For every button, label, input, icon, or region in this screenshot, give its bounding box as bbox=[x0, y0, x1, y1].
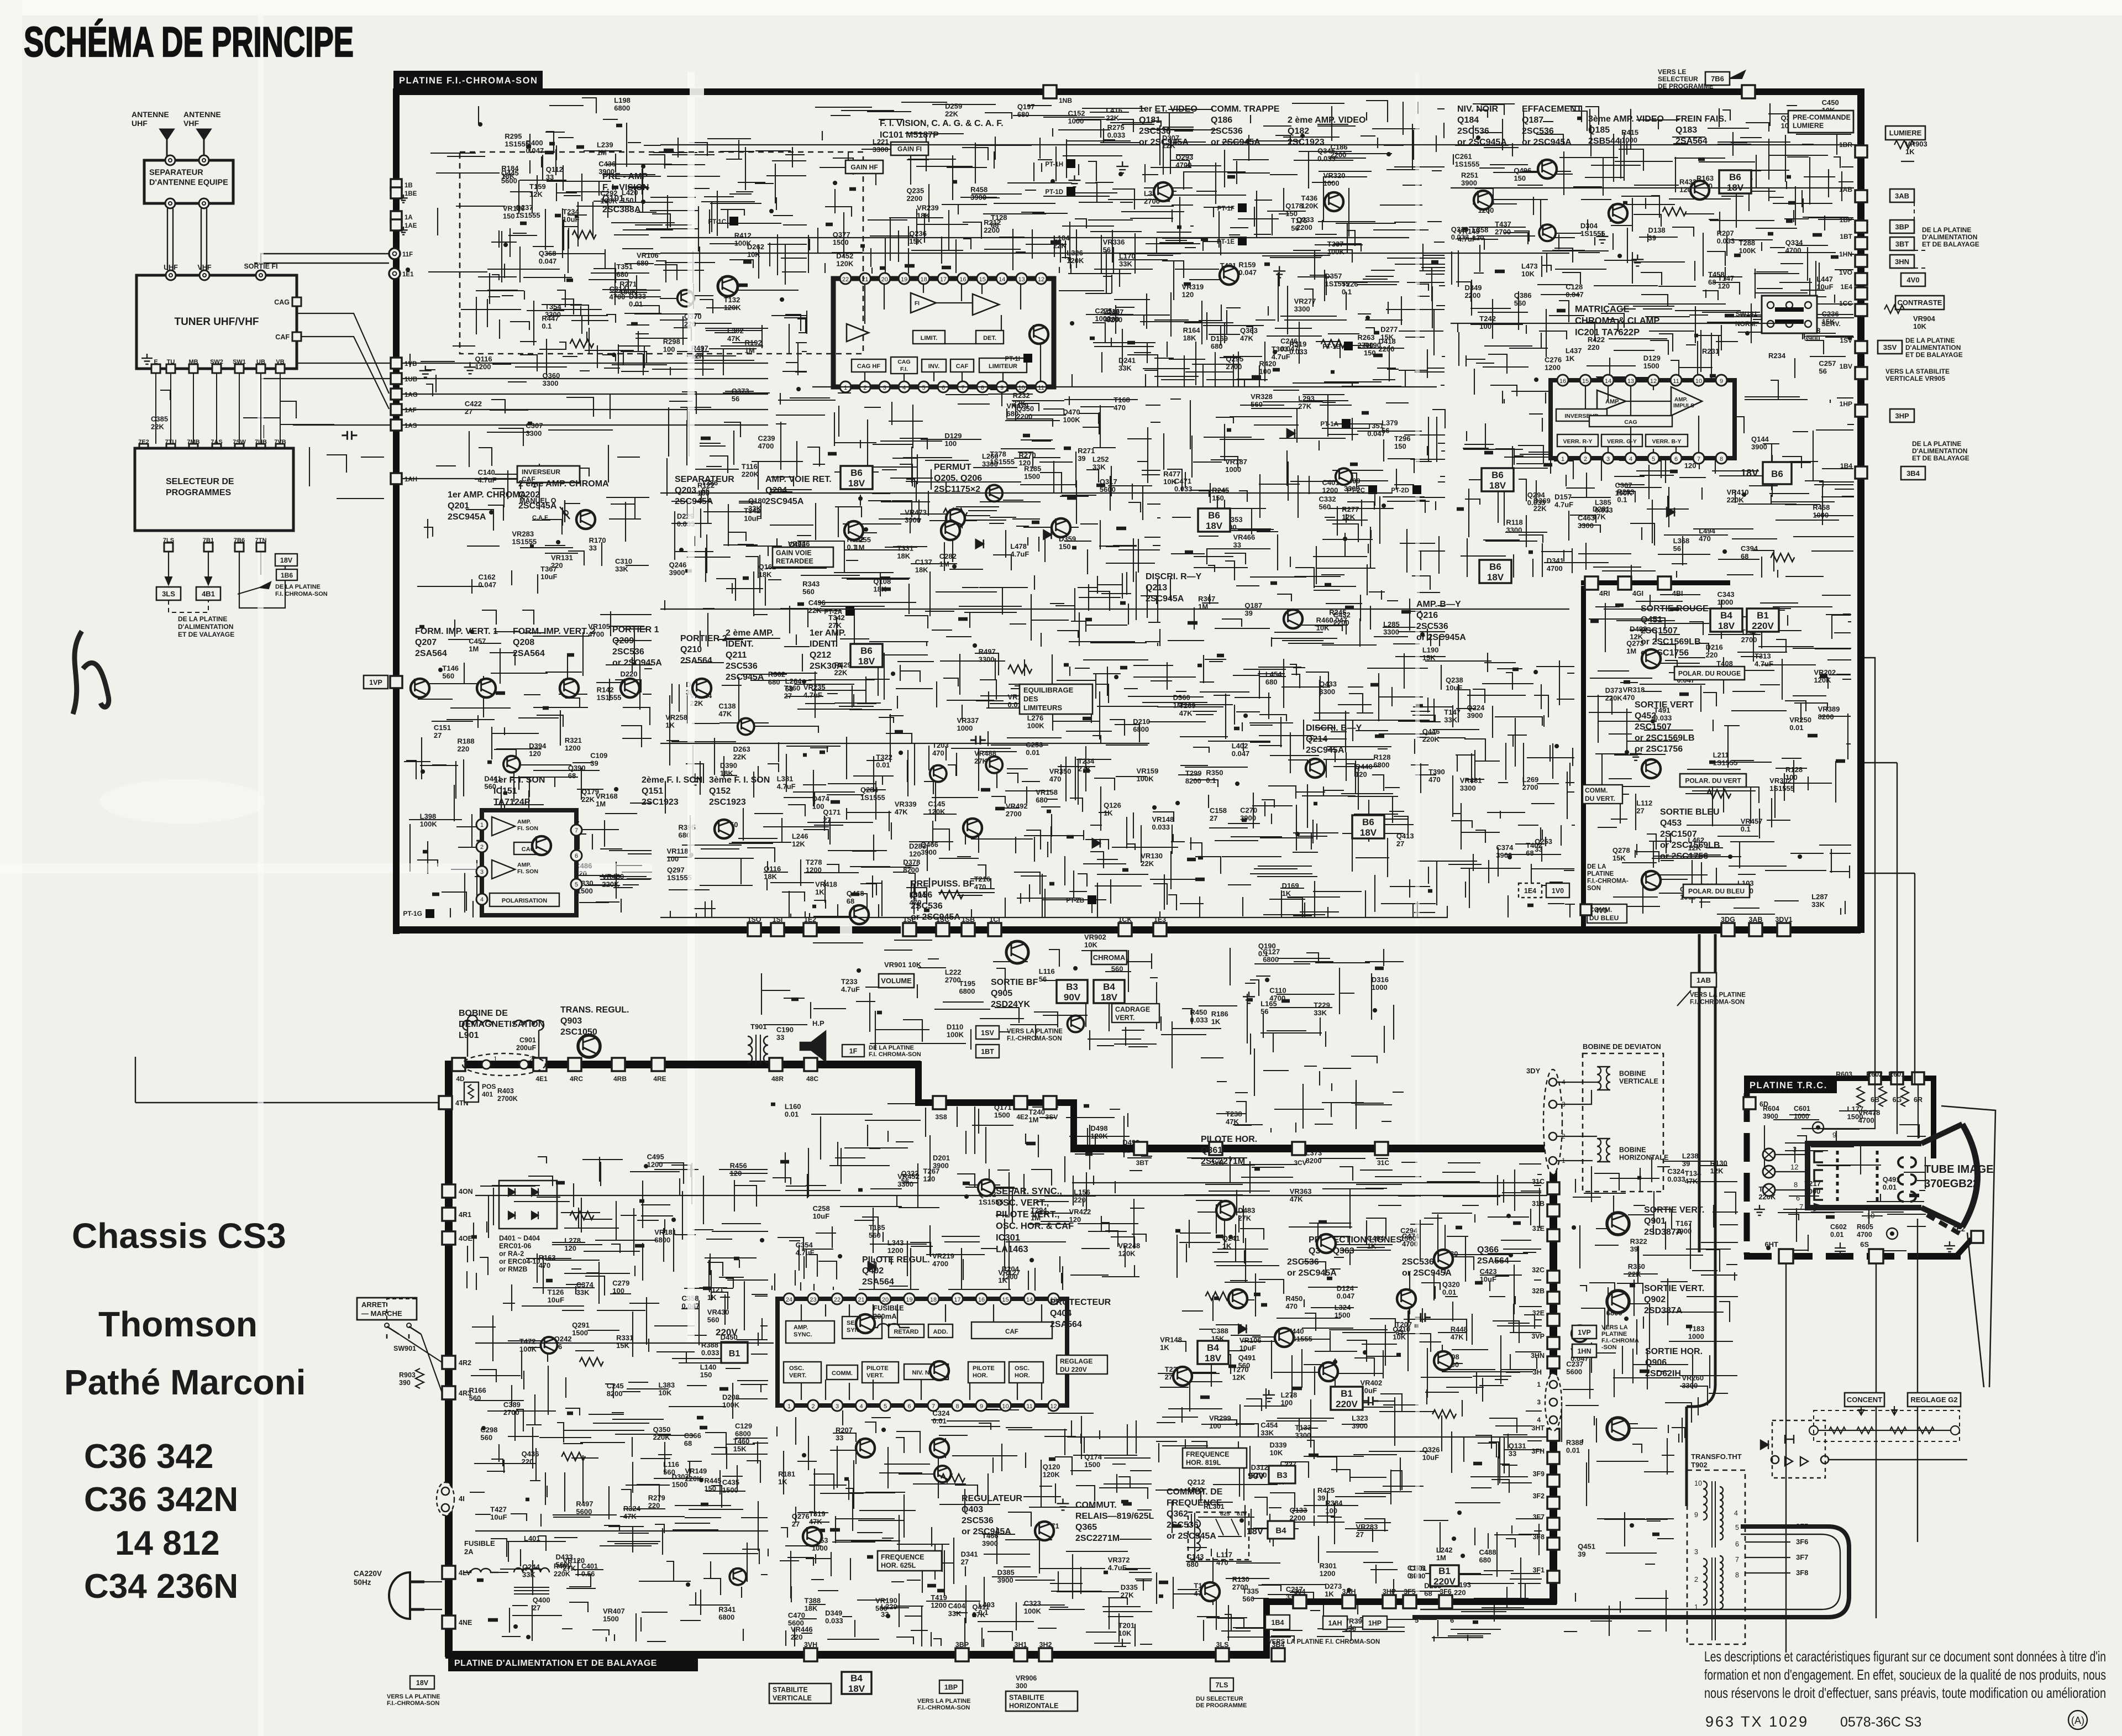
svg-text:120: 120 bbox=[564, 1244, 576, 1252]
svg-text:or 2SC945A: or 2SC945A bbox=[1139, 138, 1189, 147]
wires 6B 6G 6R to RGB bar bbox=[1864, 658, 1915, 1084]
alim platine border right bbox=[1550, 1145, 1557, 1604]
svg-text:68: 68 bbox=[991, 221, 999, 229]
svg-text:Q440: Q440 bbox=[1355, 763, 1373, 771]
svg-text:33K: 33K bbox=[1092, 463, 1106, 471]
svg-text:3HN: 3HN bbox=[1531, 1352, 1545, 1360]
wire bbox=[1764, 1111, 1926, 1251]
svg-text:10uF: 10uF bbox=[490, 1513, 507, 1522]
svg-text:VHF: VHF bbox=[183, 119, 199, 128]
svg-text:33: 33 bbox=[1396, 1328, 1404, 1336]
svg-text:R234: R234 bbox=[1768, 352, 1786, 360]
svg-text:VR901 10K: VR901 10K bbox=[884, 961, 922, 969]
svg-text:1B4: 1B4 bbox=[1272, 1619, 1284, 1627]
svg-text:0.033: 0.033 bbox=[1654, 714, 1672, 722]
svg-text:2SK30A: 2SK30A bbox=[810, 662, 843, 671]
svg-text:39: 39 bbox=[590, 759, 598, 768]
svg-text:39: 39 bbox=[1648, 234, 1656, 242]
svg-text:C450: C450 bbox=[1822, 98, 1839, 107]
svg-text:D390: D390 bbox=[720, 762, 737, 770]
svg-text:T128: T128 bbox=[991, 213, 1007, 222]
svg-text:or 2SC1569LB: or 2SC1569LB bbox=[1641, 637, 1701, 647]
wires socket to neck bbox=[1775, 1155, 1808, 1190]
wire bbox=[1155, 1156, 1542, 1641]
svg-text:3300: 3300 bbox=[982, 460, 998, 468]
svg-text:4RC: 4RC bbox=[570, 1075, 583, 1083]
label POLAR DU ROUGE bbox=[1674, 667, 1745, 680]
svg-text:Q293: Q293 bbox=[1175, 153, 1193, 161]
svg-text:1V0: 1V0 bbox=[1552, 887, 1564, 895]
svg-text:200mA: 200mA bbox=[873, 1312, 897, 1320]
wire selecteur pin 7LS drop bbox=[168, 547, 169, 585]
svg-text:31E: 31E bbox=[1532, 1225, 1545, 1232]
svg-text:47K: 47K bbox=[1685, 1177, 1698, 1186]
svg-text:47K: 47K bbox=[895, 807, 908, 816]
transistor Q906 bbox=[1607, 1418, 1629, 1440]
svg-text:Q284: Q284 bbox=[860, 785, 879, 794]
connectors alim right bar bbox=[1547, 1182, 1559, 1194]
svg-text:T126: T126 bbox=[548, 1288, 564, 1296]
svg-text:VR158: VR158 bbox=[1036, 788, 1058, 796]
svg-text:R450: R450 bbox=[1190, 1008, 1207, 1016]
svg-text:or RA-2: or RA-2 bbox=[499, 1250, 524, 1258]
label CHROMA bbox=[1091, 951, 1127, 964]
svg-text:100K: 100K bbox=[1327, 248, 1345, 256]
svg-text:L238: L238 bbox=[1682, 1152, 1699, 1160]
svg-text:R188: R188 bbox=[457, 737, 474, 746]
transistor bbox=[930, 765, 947, 782]
svg-text:R192: R192 bbox=[745, 338, 762, 347]
svg-text:T331: T331 bbox=[897, 544, 913, 553]
arrow 4B1 bbox=[205, 577, 212, 585]
label REGLAGE G2 bbox=[1908, 1393, 1961, 1407]
svg-text:11: 11 bbox=[1038, 385, 1044, 391]
svg-text:D341: D341 bbox=[961, 1550, 978, 1559]
svg-text:12K: 12K bbox=[792, 840, 805, 848]
node junctions bbox=[1637, 429, 1744, 552]
svg-text:T901: T901 bbox=[750, 1022, 767, 1031]
svg-text:SORTIE ROUGE: SORTIE ROUGE bbox=[1641, 604, 1709, 613]
svg-text:T175: T175 bbox=[1291, 217, 1307, 225]
svg-text:Q213: Q213 bbox=[1146, 583, 1167, 592]
svg-text:47K: 47K bbox=[1240, 334, 1253, 343]
svg-text:819: 819 bbox=[1237, 1511, 1247, 1517]
svg-text:Q466: Q466 bbox=[921, 841, 938, 849]
svg-text:2A: 2A bbox=[464, 1548, 474, 1556]
svg-text:4E1: 4E1 bbox=[535, 1075, 548, 1083]
svg-text:L252: L252 bbox=[1092, 455, 1109, 463]
svg-text:VERS LA PLATINE: VERS LA PLATINE bbox=[917, 1698, 971, 1704]
wire 6HT down to THT bbox=[1785, 1264, 1787, 1653]
svg-text:formation et non d'engagement.: formation et non d'engagement. En effet,… bbox=[1704, 1666, 2106, 1683]
resistor R601 bbox=[1901, 1087, 1909, 1106]
svg-text:STABILITE: STABILITE bbox=[1009, 1694, 1044, 1702]
wire CAG to 1AG bbox=[297, 313, 389, 394]
svg-text:220: 220 bbox=[1588, 343, 1600, 352]
svg-text:ET DE BALAYAGE: ET DE BALAYAGE bbox=[1905, 351, 1963, 359]
IC301 OSC HOR box bbox=[1009, 1362, 1043, 1383]
svg-text:HOR. 819L: HOR. 819L bbox=[1186, 1459, 1221, 1467]
svg-text:7MB: 7MB bbox=[187, 439, 199, 445]
svg-text:2 ème AMP. VIDEO: 2 ème AMP. VIDEO bbox=[1288, 116, 1365, 125]
svg-text:C276: C276 bbox=[1545, 355, 1562, 364]
svg-text:12K: 12K bbox=[529, 190, 543, 198]
svg-text:C253: C253 bbox=[1026, 741, 1043, 749]
svg-text:2SC945A: 2SC945A bbox=[518, 501, 557, 511]
test point PT-1C bbox=[729, 217, 738, 225]
svg-text:Q205, Q206: Q205, Q206 bbox=[934, 474, 982, 483]
svg-text:1er AMP. CHROMA: 1er AMP. CHROMA bbox=[448, 490, 527, 500]
svg-text:R497: R497 bbox=[576, 1499, 593, 1508]
svg-text:C245: C245 bbox=[607, 1382, 624, 1390]
svg-text:VR478: VR478 bbox=[1858, 1108, 1881, 1116]
svg-text:Q386: Q386 bbox=[1514, 291, 1532, 300]
svg-text:or 2SC1569LB: or 2SC1569LB bbox=[1635, 733, 1695, 743]
alim platine border top 1 bbox=[445, 1061, 921, 1068]
svg-text:100: 100 bbox=[812, 803, 824, 811]
transistor bbox=[1275, 1328, 1294, 1347]
svg-text:T269: T269 bbox=[1179, 701, 1196, 710]
svg-text:0.033: 0.033 bbox=[1289, 348, 1307, 356]
svg-text:COMMUT.: COMMUT. bbox=[1075, 1501, 1117, 1510]
svg-text:Q101: Q101 bbox=[602, 194, 624, 203]
svg-text:2SC536: 2SC536 bbox=[911, 901, 943, 911]
svg-text:GAIN FI: GAIN FI bbox=[897, 145, 922, 153]
svg-text:R425: R425 bbox=[1317, 1486, 1335, 1494]
label 3B4 bbox=[1901, 466, 1925, 480]
svg-text:33: 33 bbox=[1509, 1450, 1516, 1458]
svg-text:R324: R324 bbox=[623, 1504, 641, 1513]
svg-text:33: 33 bbox=[776, 1034, 784, 1042]
IC101 internal CAG FI box bbox=[891, 357, 917, 374]
svg-text:DE LA PLATINE: DE LA PLATINE bbox=[1912, 440, 1961, 448]
svg-text:6800: 6800 bbox=[1133, 725, 1149, 733]
ground bbox=[528, 475, 540, 487]
svg-text:0.01: 0.01 bbox=[1789, 723, 1803, 732]
svg-text:18V: 18V bbox=[848, 478, 865, 489]
svg-text:2SC2271M: 2SC2271M bbox=[1075, 1534, 1120, 1543]
scan gap bottom bar 1 bbox=[840, 925, 852, 935]
svg-text:6: 6 bbox=[1450, 1616, 1454, 1624]
svg-text:47K: 47K bbox=[727, 334, 740, 343]
svg-text:3F5: 3F5 bbox=[1404, 1588, 1416, 1596]
svg-text:3SV: 3SV bbox=[1883, 343, 1897, 352]
wire bbox=[777, 1409, 1152, 1647]
svg-text:D369: D369 bbox=[1533, 496, 1551, 505]
svg-text:D'ALIMENTATION: D'ALIMENTATION bbox=[178, 623, 233, 631]
svg-text:2SC536: 2SC536 bbox=[1402, 1257, 1434, 1267]
svg-text:470: 470 bbox=[539, 1261, 551, 1270]
IC201 internal wires bbox=[1585, 386, 1699, 453]
svg-text:3300: 3300 bbox=[526, 429, 542, 437]
svg-text:or 2SC945A: or 2SC945A bbox=[1287, 1268, 1337, 1278]
svg-text:B4: B4 bbox=[850, 1673, 863, 1683]
IC151 POLARISATION box bbox=[490, 893, 559, 906]
svg-text:Q436: Q436 bbox=[522, 1450, 539, 1458]
svg-text:C394: C394 bbox=[1741, 544, 1758, 553]
transistor bbox=[1642, 759, 1661, 778]
svg-text:1AG: 1AG bbox=[405, 392, 418, 398]
svg-text:VERS LA PLATINE: VERS LA PLATINE bbox=[1690, 992, 1746, 999]
svg-text:L381: L381 bbox=[777, 775, 794, 783]
svg-text:MATRIÇAGE: MATRIÇAGE bbox=[1575, 305, 1630, 314]
svg-text:3ème F. I. SON: 3ème F. I. SON bbox=[709, 775, 770, 785]
IC201 VERR R-Y bbox=[1557, 434, 1598, 447]
svg-text:FORM. IMP. VERT. 2: FORM. IMP. VERT. 2 bbox=[513, 627, 596, 636]
IC201 VERR G-Y bbox=[1601, 434, 1642, 447]
svg-text:220V: 220V bbox=[1752, 621, 1774, 631]
svg-text:Q451: Q451 bbox=[1578, 1543, 1595, 1551]
svg-text:L229: L229 bbox=[881, 1602, 897, 1611]
svg-text:L260: L260 bbox=[982, 452, 999, 460]
svg-text:18V: 18V bbox=[1205, 1353, 1222, 1363]
wire alim bus 4 bbox=[475, 1530, 768, 1532]
svg-text:VR328: VR328 bbox=[1251, 392, 1273, 401]
svg-text:27: 27 bbox=[1356, 1530, 1364, 1539]
svg-text:56: 56 bbox=[1039, 975, 1047, 983]
transistor bbox=[1317, 1234, 1336, 1253]
svg-text:FI: FI bbox=[915, 301, 920, 307]
svg-text:R277: R277 bbox=[1342, 505, 1359, 513]
wire sortie FI to platine bbox=[254, 254, 389, 275]
svg-text:PLATINE: PLATINE bbox=[1587, 871, 1614, 878]
svg-text:Q326: Q326 bbox=[1422, 1446, 1440, 1454]
svg-text:C332: C332 bbox=[1319, 495, 1336, 503]
connector 1NB bbox=[1043, 85, 1057, 98]
IC301 SEPAR SYNC box bbox=[842, 1317, 882, 1339]
wire bbox=[1161, 948, 1404, 1132]
label STABILITE HORIZONTALE bbox=[1006, 1691, 1078, 1711]
label 4V0 bbox=[1901, 273, 1925, 286]
svg-text:PORTIER 2: PORTIER 2 bbox=[680, 634, 727, 643]
wire alim bus 1 bbox=[475, 1195, 1547, 1196]
resistor bbox=[1008, 665, 1032, 673]
svg-text:UHF: UHF bbox=[132, 119, 148, 128]
svg-text:14: 14 bbox=[1026, 1297, 1033, 1303]
svg-text:D262: D262 bbox=[747, 243, 764, 251]
svg-text:B3: B3 bbox=[1277, 1471, 1287, 1480]
svg-text:16: 16 bbox=[959, 276, 966, 283]
svg-text:3300: 3300 bbox=[1506, 526, 1522, 534]
svg-text:R604: R604 bbox=[1763, 1105, 1779, 1113]
connector 1E1 circle bbox=[389, 268, 400, 279]
svg-text:2SC536: 2SC536 bbox=[962, 1516, 994, 1525]
transformer THT T902 box bbox=[1687, 1470, 1745, 1644]
svg-text:100: 100 bbox=[944, 439, 957, 448]
svg-text:120K: 120K bbox=[1043, 1470, 1060, 1478]
wire selecteur pin 7B6 drop bbox=[239, 547, 285, 608]
svg-text:REGLAGE G2: REGLAGE G2 bbox=[1910, 1396, 1957, 1404]
svg-text:OSC. VERT.,: OSC. VERT., bbox=[996, 1198, 1049, 1208]
svg-text:10uF: 10uF bbox=[1480, 1275, 1496, 1283]
svg-text:27: 27 bbox=[1396, 840, 1404, 848]
svg-text:1000: 1000 bbox=[1225, 465, 1241, 474]
ground bbox=[1057, 1498, 1069, 1510]
svg-text:2SC945A: 2SC945A bbox=[1306, 746, 1344, 755]
svg-text:4E2: 4E2 bbox=[1016, 1113, 1028, 1121]
label 3HP bbox=[1890, 409, 1914, 422]
tube socket terminals bbox=[1763, 1148, 1775, 1161]
IC151 amp2 triangle bbox=[492, 860, 515, 879]
svg-text:10uF: 10uF bbox=[744, 515, 760, 523]
svg-text:IMPULS: IMPULS bbox=[1673, 403, 1694, 409]
svg-text:13: 13 bbox=[1627, 378, 1634, 385]
test point PT-1F bbox=[1238, 203, 1247, 212]
svg-text:0.01: 0.01 bbox=[1566, 1446, 1580, 1455]
svg-text:L117: L117 bbox=[1216, 1551, 1232, 1559]
svg-text:3DV1: 3DV1 bbox=[1775, 916, 1792, 924]
transistor bbox=[1538, 160, 1557, 179]
svg-text:18K: 18K bbox=[805, 1604, 818, 1612]
svg-text:Q291: Q291 bbox=[572, 1321, 590, 1329]
connector 11F circle bbox=[389, 248, 400, 259]
svg-text:5600: 5600 bbox=[1566, 1367, 1582, 1376]
svg-text:100K: 100K bbox=[1739, 246, 1757, 255]
label 1AB vers la platine bbox=[1691, 973, 1716, 987]
svg-text:R903: R903 bbox=[399, 1371, 416, 1379]
svg-text:R271: R271 bbox=[1078, 447, 1095, 455]
svg-text:CAF: CAF bbox=[956, 363, 969, 370]
svg-text:100K: 100K bbox=[1024, 1607, 1042, 1616]
svg-text:R186: R186 bbox=[1211, 1010, 1228, 1018]
svg-text:2SC1923: 2SC1923 bbox=[709, 798, 746, 807]
IC301 CAF box bbox=[971, 1322, 1052, 1339]
svg-text:Q212: Q212 bbox=[810, 651, 831, 660]
IC201 INVERSEUR box bbox=[1556, 409, 1607, 421]
svg-text:3HT: 3HT bbox=[1531, 1424, 1545, 1432]
node junctions bbox=[408, 124, 643, 542]
svg-text:B6: B6 bbox=[850, 468, 863, 478]
svg-text:150: 150 bbox=[503, 212, 515, 220]
svg-text:1: 1 bbox=[1561, 456, 1564, 463]
svg-text:4700: 4700 bbox=[609, 293, 625, 301]
svg-text:6: 6 bbox=[1674, 456, 1678, 463]
svg-text:Q468: Q468 bbox=[847, 889, 864, 898]
svg-text:1K: 1K bbox=[1160, 1343, 1169, 1351]
svg-text:4: 4 bbox=[1734, 1509, 1738, 1517]
svg-text:2SC536: 2SC536 bbox=[1522, 127, 1554, 136]
svg-text:7B6: 7B6 bbox=[1711, 75, 1724, 83]
svg-text:OSC. HOR. & CAF: OSC. HOR. & CAF bbox=[996, 1221, 1074, 1231]
svg-text:27: 27 bbox=[823, 816, 831, 824]
svg-text:VR187: VR187 bbox=[1225, 458, 1247, 466]
svg-text:RELAIS—819/625L: RELAIS—819/625L bbox=[1075, 1512, 1154, 1521]
svg-text:R130: R130 bbox=[1710, 1159, 1727, 1167]
svg-text:L211: L211 bbox=[1713, 751, 1729, 759]
svg-text:R601: R601 bbox=[1888, 1071, 1905, 1078]
svg-text:CAG: CAG bbox=[1624, 419, 1637, 426]
svg-text:18K: 18K bbox=[1183, 334, 1196, 342]
TRC border left bbox=[1744, 1093, 1750, 1255]
svg-text:D277: D277 bbox=[1380, 325, 1398, 333]
svg-text:33: 33 bbox=[546, 173, 554, 181]
svg-text:17: 17 bbox=[940, 276, 947, 283]
svg-text:VR318: VR318 bbox=[1623, 686, 1645, 694]
IC301 pins bottom bbox=[784, 1400, 795, 1411]
IC101 internal LIMITEUR box bbox=[979, 358, 1027, 373]
svg-text:1E4: 1E4 bbox=[1841, 283, 1853, 291]
capacitor bbox=[970, 736, 986, 744]
svg-text:2SC945A: 2SC945A bbox=[765, 497, 804, 506]
svg-text:Thomson: Thomson bbox=[98, 1304, 258, 1344]
svg-text:1M: 1M bbox=[596, 800, 606, 808]
svg-text:Q278: Q278 bbox=[1612, 846, 1630, 854]
label 1B6 box bbox=[276, 569, 297, 580]
svg-text:R275: R275 bbox=[1107, 123, 1125, 132]
svg-text:2SA564: 2SA564 bbox=[1050, 1320, 1082, 1329]
svg-text:3BP: 3BP bbox=[955, 1641, 969, 1649]
ground bbox=[1116, 161, 1128, 173]
concent pots resistors bbox=[1829, 1427, 1846, 1434]
svg-text:90V: 90V bbox=[1064, 992, 1081, 1003]
IC101 internal CAG HF box bbox=[852, 359, 886, 372]
svg-text:1AF: 1AF bbox=[405, 407, 417, 414]
label GAIN HF bbox=[845, 160, 883, 174]
tube cathode arrow bbox=[1814, 1204, 1825, 1210]
svg-text:120: 120 bbox=[923, 1175, 936, 1183]
svg-text:680: 680 bbox=[1265, 678, 1278, 686]
svg-text:560: 560 bbox=[480, 1433, 492, 1441]
svg-text:D110: D110 bbox=[947, 1022, 963, 1031]
svg-text:T270: T270 bbox=[1232, 1366, 1249, 1374]
svg-text:3BT: 3BT bbox=[1136, 1159, 1149, 1167]
alim platine border top 2 bbox=[915, 1099, 1076, 1106]
dashed wires right labels bbox=[1914, 202, 1925, 268]
svg-text:CAF: CAF bbox=[275, 333, 290, 341]
svg-text:L165: L165 bbox=[1260, 999, 1277, 1008]
svg-text:VERS LA PLATINE: VERS LA PLATINE bbox=[1007, 1029, 1063, 1035]
switch SW901 bbox=[387, 1326, 421, 1339]
svg-text:EQUILIBRAGE: EQUILIBRAGE bbox=[1023, 686, 1074, 694]
svg-text:0.047: 0.047 bbox=[1337, 1292, 1355, 1300]
svg-text:T419: T419 bbox=[931, 1593, 947, 1602]
transistor bbox=[411, 679, 429, 697]
svg-text:10uF: 10uF bbox=[1422, 1454, 1439, 1462]
svg-text:D220: D220 bbox=[620, 670, 637, 678]
svg-text:CONTRASTE: CONTRASTE bbox=[1898, 298, 1942, 307]
svg-text:(A): (A) bbox=[2071, 1715, 2084, 1726]
svg-text:27: 27 bbox=[792, 1520, 800, 1528]
fold crease 2 bbox=[687, 72, 695, 1343]
svg-text:0.01: 0.01 bbox=[629, 300, 643, 308]
svg-text:LA1463: LA1463 bbox=[996, 1245, 1028, 1255]
selecteur de programmes box bbox=[135, 448, 293, 531]
svg-text:5: 5 bbox=[1415, 1616, 1419, 1624]
svg-text:100K: 100K bbox=[947, 1030, 964, 1039]
concent dashed box bbox=[1814, 1410, 1960, 1441]
svg-text:2200: 2200 bbox=[1330, 150, 1346, 159]
svg-text:D357: D357 bbox=[1325, 272, 1342, 280]
svg-text:0.1: 0.1 bbox=[978, 1608, 988, 1617]
svg-text:SORTIE BF: SORTIE BF bbox=[991, 978, 1038, 987]
svg-text:680: 680 bbox=[637, 259, 649, 268]
transistor bbox=[1434, 1250, 1453, 1268]
svg-text:7E2: 7E2 bbox=[138, 439, 149, 445]
node junctions bbox=[1275, 136, 1389, 352]
svg-text:Q152: Q152 bbox=[709, 786, 731, 796]
svg-text:18V: 18V bbox=[416, 1679, 429, 1687]
svg-text:2SC536: 2SC536 bbox=[1139, 127, 1171, 136]
connectors on chroma right bar bbox=[1855, 145, 1867, 158]
svg-text:SORTIE VERT.: SORTIE VERT. bbox=[1644, 1205, 1704, 1215]
svg-text:1K: 1K bbox=[1222, 1242, 1232, 1250]
alim platine border bottom right bbox=[1263, 1598, 1557, 1605]
IC201 VERR B-Y bbox=[1646, 434, 1688, 447]
IC301 ADD box bbox=[928, 1324, 953, 1338]
svg-text:7: 7 bbox=[932, 1403, 935, 1410]
svg-text:21: 21 bbox=[858, 1297, 864, 1303]
svg-text:or ERC04-10: or ERC04-10 bbox=[499, 1258, 540, 1266]
